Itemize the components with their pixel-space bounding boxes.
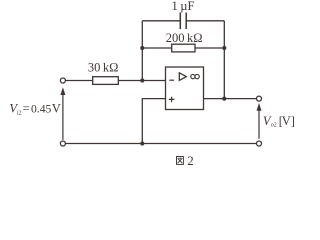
terminal: input top	[60, 78, 65, 83]
label: output voltage Vo2 [V]	[263, 114, 295, 129]
svg-text:30 kΩ: 30 kΩ	[88, 60, 119, 74]
arrow: input voltage Vi2 direction	[60, 87, 65, 140]
svg-text:=: =	[23, 102, 30, 116]
node: output junction	[222, 97, 226, 101]
terminal: output bottom	[257, 141, 262, 146]
label: op-amp plus input	[169, 97, 175, 102]
wire: top capacitor branch right segment	[187, 20, 225, 22]
node: feedback left junction at 200k	[140, 46, 144, 50]
svg-text:o2: o2	[271, 123, 277, 129]
op-amp U1 body	[166, 67, 204, 110]
label: op-amp infinity gain (drawn)	[191, 74, 200, 78]
resistor R1 30k body	[93, 77, 119, 85]
svg-text:200 kΩ: 200 kΩ	[166, 31, 203, 45]
wire: 200k branch left segment	[142, 47, 171, 49]
wire: left feedback vertical (top wire to inverting input)	[141, 21, 143, 81]
label: op-amp minus input	[169, 79, 174, 81]
svg-text:i2: i2	[17, 110, 22, 116]
wire: bottom common rail	[66, 143, 257, 145]
svg-text:V: V	[52, 102, 61, 116]
svg-text:0.45: 0.45	[31, 103, 51, 116]
resistor R2 200k body	[172, 44, 195, 52]
capacitor C1 1uF plates	[180, 13, 186, 30]
node: feedback right junction at 200k	[222, 46, 226, 50]
caption: figure number "zu 2" (drawn kanji)	[177, 157, 184, 165]
arrow: output voltage Vo2 direction	[257, 103, 262, 139]
op-amp ideal triangle symbol	[179, 73, 186, 81]
wire: R1 to op-amp inverting input	[118, 80, 165, 82]
svg-text:V: V	[282, 114, 291, 128]
terminal: output top	[257, 96, 262, 101]
wire: non-inverting input to ground rail	[142, 99, 165, 144]
label: source voltage Vi2 = 0.45 V	[9, 102, 60, 117]
svg-text:2: 2	[187, 153, 194, 168]
wire: top capacitor branch left segment	[142, 20, 180, 22]
wire: right feedback vertical (top wire to output node)	[223, 21, 225, 99]
wire: op-amp output to terminal	[204, 98, 257, 100]
svg-text:1 µF: 1 µF	[172, 0, 195, 13]
wire: inverting input wire from source terminal through R1	[66, 80, 93, 82]
wire: 200k branch right segment	[195, 47, 224, 49]
node: inverting input junction	[140, 78, 144, 82]
node: bottom rail junction	[140, 141, 144, 145]
terminal: input bottom	[60, 141, 65, 146]
svg-text:]: ]	[291, 114, 295, 128]
